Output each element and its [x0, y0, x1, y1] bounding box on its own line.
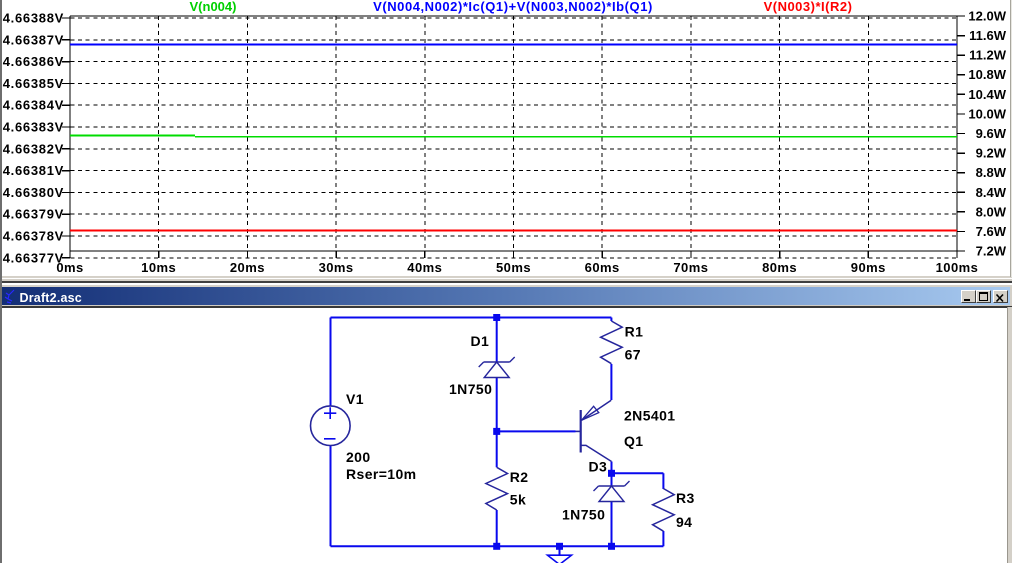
svg-text:4.66387V: 4.66387V: [3, 32, 64, 47]
svg-text:100ms: 100ms: [936, 260, 979, 275]
svg-text:8.8W: 8.8W: [976, 165, 1007, 180]
svg-text:10.4W: 10.4W: [968, 87, 1006, 102]
svg-text:Rser=10m: Rser=10m: [346, 466, 417, 482]
svg-text:4.66379V: 4.66379V: [3, 207, 64, 222]
svg-text:11.6W: 11.6W: [969, 28, 1007, 43]
svg-text:20ms: 20ms: [230, 260, 265, 275]
svg-text:80ms: 80ms: [762, 260, 797, 275]
svg-text:4.66383V: 4.66383V: [3, 120, 64, 135]
svg-text:10ms: 10ms: [141, 260, 176, 275]
svg-text:D1: D1: [471, 333, 490, 349]
svg-text:10.8W: 10.8W: [968, 67, 1006, 82]
svg-text:0ms: 0ms: [56, 260, 83, 275]
svg-text:2N5401: 2N5401: [624, 408, 675, 424]
svg-text:D3: D3: [589, 459, 608, 475]
svg-text:9.2W: 9.2W: [976, 146, 1007, 161]
svg-text:200: 200: [346, 449, 371, 465]
svg-text:V1: V1: [346, 391, 364, 407]
svg-text:V(N003)*I(R2): V(N003)*I(R2): [764, 0, 853, 14]
svg-text:4.66378V: 4.66378V: [3, 229, 64, 244]
svg-text:R2: R2: [510, 469, 529, 485]
svg-text:7.2W: 7.2W: [976, 244, 1007, 259]
svg-text:8.0W: 8.0W: [976, 204, 1007, 219]
svg-text:60ms: 60ms: [585, 260, 620, 275]
svg-text:4.66381V: 4.66381V: [3, 163, 64, 178]
svg-text:10.0W: 10.0W: [968, 106, 1006, 121]
svg-text:4.66384V: 4.66384V: [3, 98, 64, 113]
svg-text:Q1: Q1: [624, 433, 643, 449]
svg-text:8.4W: 8.4W: [976, 185, 1007, 200]
svg-text:90ms: 90ms: [851, 260, 886, 275]
svg-text:1N750: 1N750: [449, 381, 492, 397]
svg-text:70ms: 70ms: [673, 260, 708, 275]
svg-text:40ms: 40ms: [407, 260, 442, 275]
svg-text:R3: R3: [676, 490, 695, 506]
svg-text:30ms: 30ms: [319, 260, 354, 275]
svg-text:4.66377V: 4.66377V: [3, 250, 64, 265]
svg-text:V(n004): V(n004): [190, 0, 237, 14]
svg-text:50ms: 50ms: [496, 260, 531, 275]
svg-text:9.6W: 9.6W: [976, 126, 1007, 141]
svg-text:94: 94: [676, 514, 692, 530]
svg-text:4.66382V: 4.66382V: [3, 141, 64, 156]
svg-text:R1: R1: [625, 324, 644, 340]
svg-text:1N750: 1N750: [562, 507, 605, 523]
svg-text:4.66380V: 4.66380V: [3, 185, 64, 200]
svg-text:12.0W: 12.0W: [968, 9, 1006, 24]
svg-text:67: 67: [625, 347, 641, 363]
svg-text:4.66386V: 4.66386V: [3, 54, 64, 69]
svg-text:4.66385V: 4.66385V: [3, 76, 64, 91]
svg-text:V(N004,N002)*Ic(Q1)+V(N003,N00: V(N004,N002)*Ic(Q1)+V(N003,N002)*Ib(Q1): [373, 0, 653, 14]
svg-text:4.66388V: 4.66388V: [3, 11, 64, 26]
svg-text:11.2W: 11.2W: [969, 48, 1007, 63]
svg-text:7.6W: 7.6W: [976, 224, 1007, 239]
svg-text:5k: 5k: [510, 492, 526, 508]
